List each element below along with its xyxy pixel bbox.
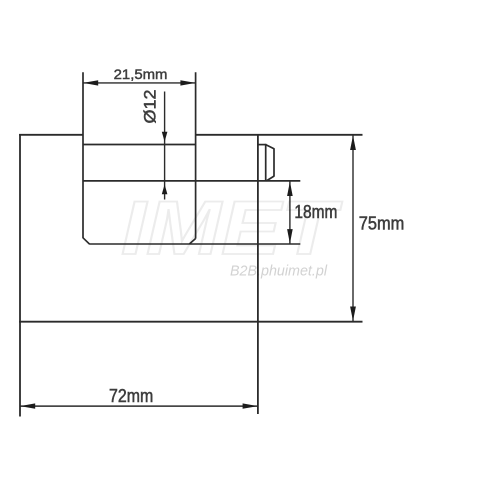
svg-text:IMET: IMET <box>121 186 343 271</box>
dimension line diameter 12 <box>164 92 166 200</box>
shackle bolt top line <box>83 144 196 146</box>
bolt tip right edge <box>273 148 275 176</box>
body right edge with 72mm right extension line <box>257 134 259 414</box>
dimension line 18mm <box>289 181 291 243</box>
shackle housing left edge with 21,5mm left extension line <box>82 72 84 238</box>
body top edge left segment <box>19 134 83 136</box>
dimension 72mm right arrowhead <box>243 403 258 408</box>
svg-text:B2B.phuimet.pl: B2B.phuimet.pl <box>230 264 328 280</box>
body left edge with 72mm left extension line <box>19 134 21 417</box>
dimension diameter 12 lower arrowhead pointing up <box>162 184 168 194</box>
svg-text:Ø12: Ø12 <box>141 90 160 124</box>
dimension diameter 12 upper arrowhead pointing down <box>162 132 168 142</box>
svg-text:75mm: 75mm <box>359 214 405 234</box>
bolt tip inner vertical line <box>265 144 267 181</box>
dimension 75mm top arrowhead <box>350 136 356 151</box>
dimension 75mm bottom arrowhead <box>350 307 356 322</box>
dimension 18mm top arrowhead <box>287 182 293 197</box>
svg-text:72mm: 72mm <box>109 386 153 406</box>
case bottom right chamfer <box>189 239 195 245</box>
case bottom edge with 18mm bottom extension line <box>89 243 300 245</box>
dimension line 72mm <box>20 405 258 407</box>
dimension line 21,5mm <box>83 82 196 84</box>
dimension line 75mm <box>352 135 354 322</box>
svg-text:18mm: 18mm <box>294 202 337 222</box>
dimension 21,5mm right arrowhead <box>180 80 195 85</box>
svg-text:21,5mm: 21,5mm <box>114 66 168 82</box>
bolt tip top segment <box>258 144 266 146</box>
case bottom left chamfer <box>83 238 89 244</box>
dimension 18mm bottom arrowhead <box>287 229 293 244</box>
body bottom edge with 75mm bottom extension line <box>19 321 363 323</box>
body top edge right segment with 75mm top extension line <box>196 134 363 136</box>
shackle bolt bottom line with 18mm top extension line <box>83 180 300 182</box>
shackle housing right edge with 21,5mm right extension line <box>195 72 197 238</box>
bolt tip bottom chamfer <box>266 176 274 181</box>
dimension 21,5mm left arrowhead <box>83 80 98 85</box>
bolt tip top chamfer <box>266 145 274 149</box>
dimension 72mm left arrowhead <box>20 403 35 408</box>
